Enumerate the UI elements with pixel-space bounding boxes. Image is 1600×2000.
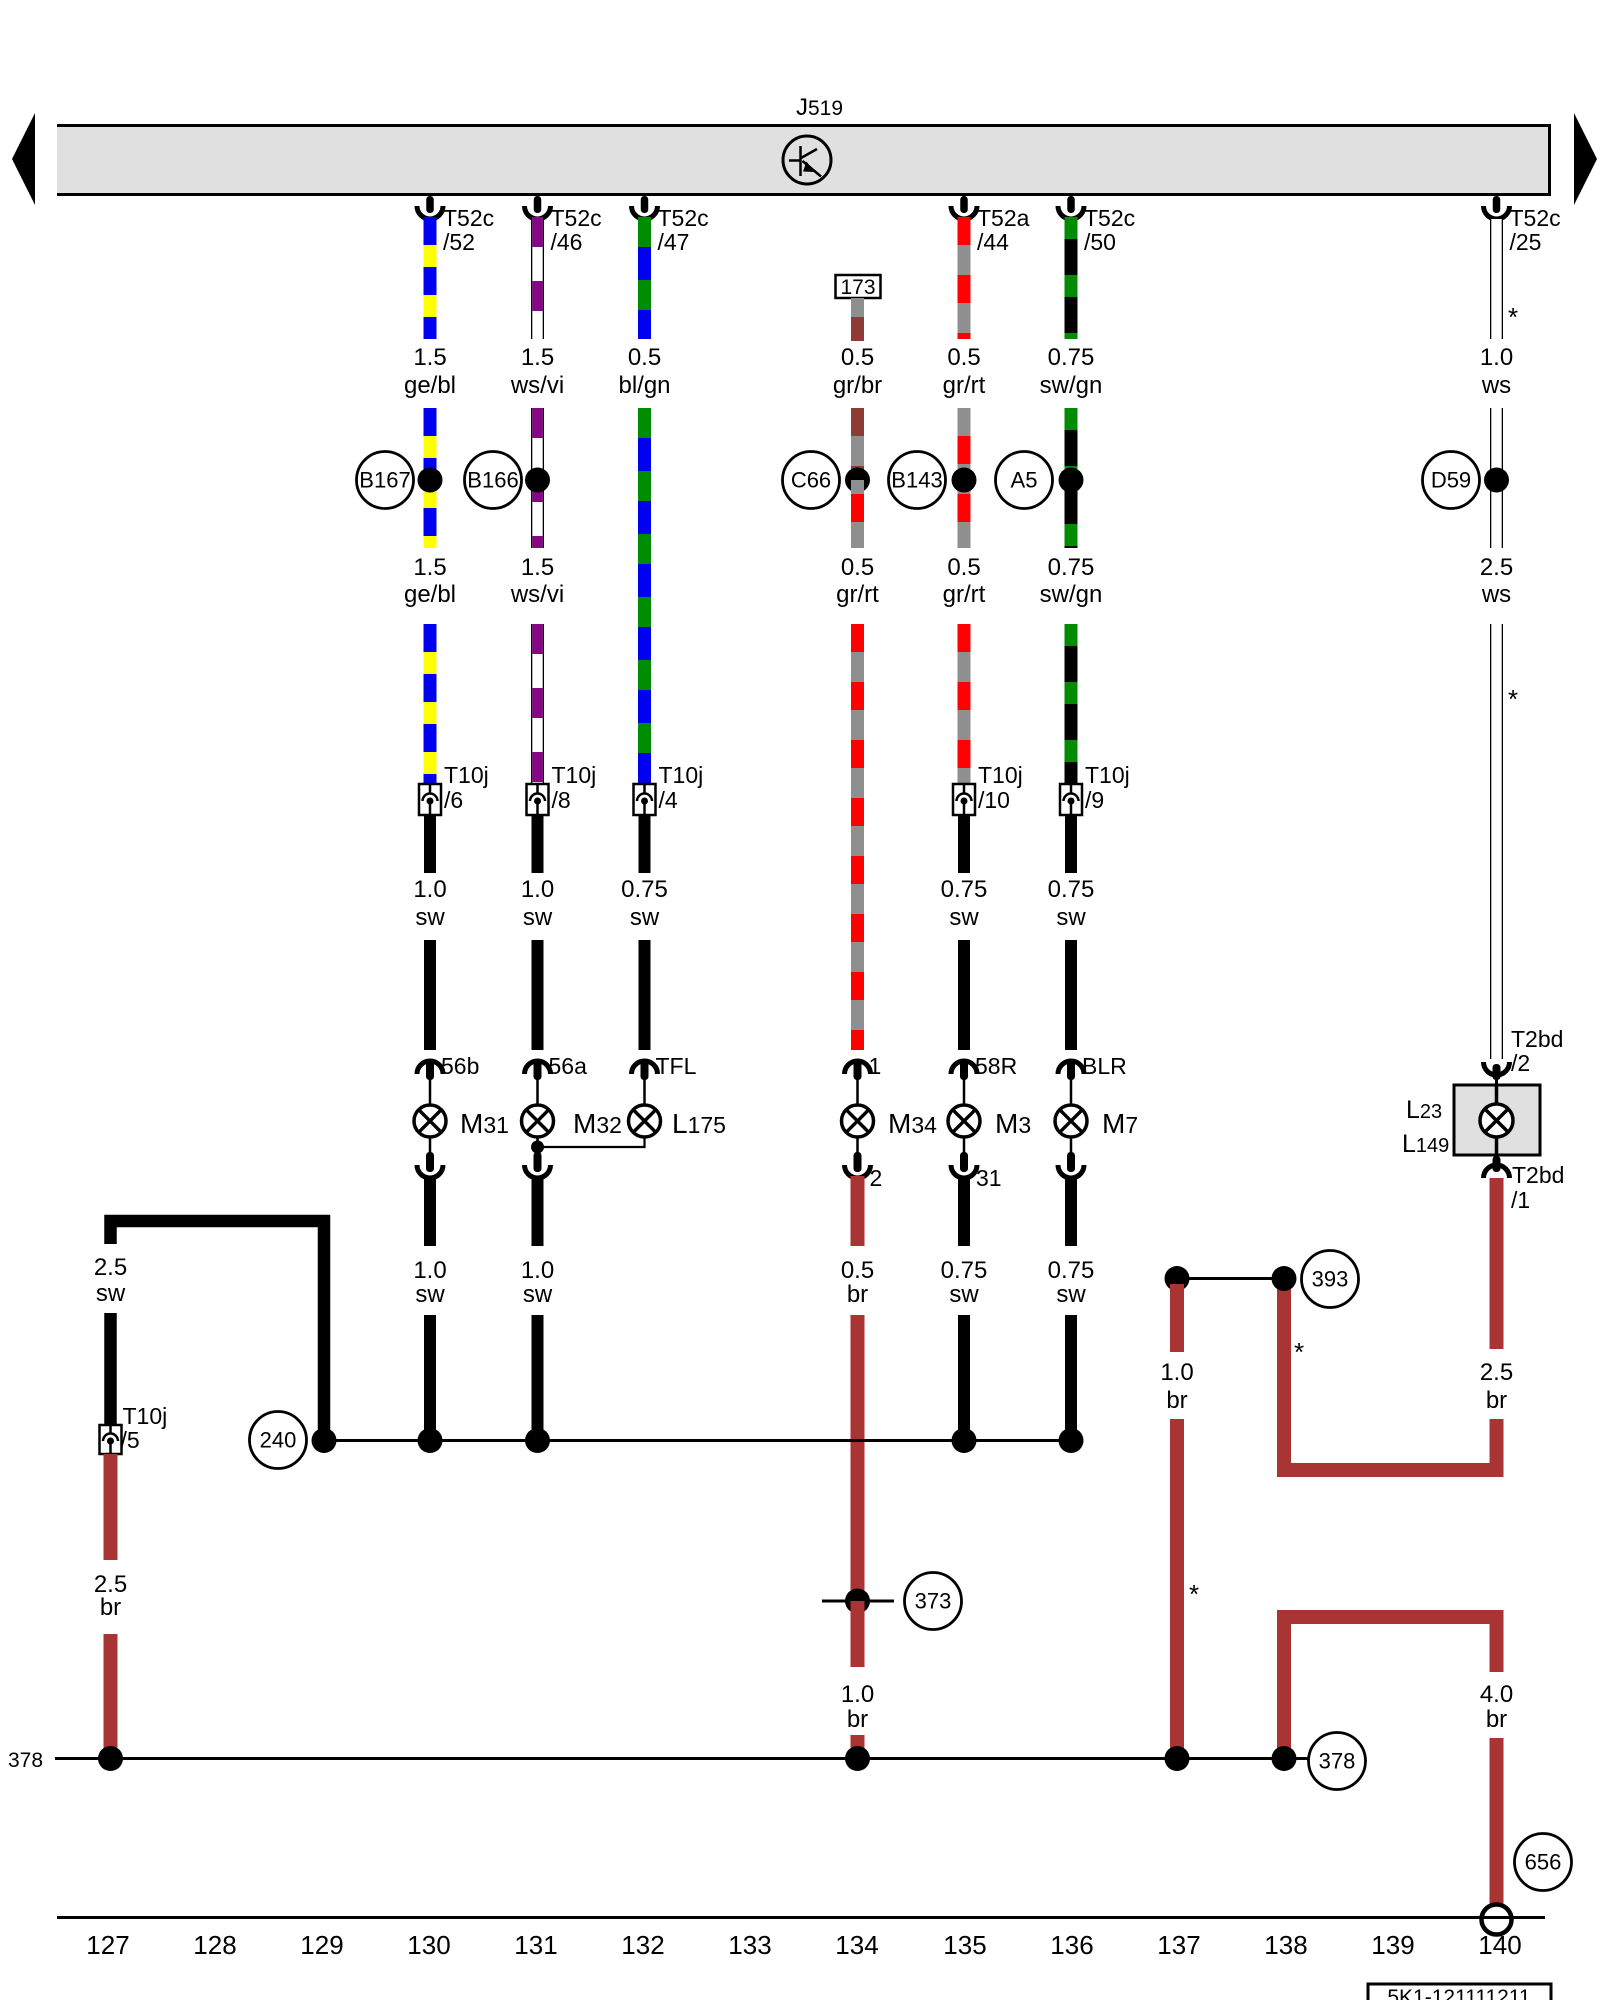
svg-text:L23: L23 [1406, 1096, 1442, 1124]
svg-text:ws/vi: ws/vi [510, 581, 564, 608]
svg-text:D59: D59 [1431, 468, 1471, 493]
label 1.0 sw below M32 [521, 1257, 554, 1308]
svg-text:0.75: 0.75 [1048, 554, 1095, 581]
svg-text:2: 2 [870, 1165, 883, 1191]
svg-text:1.0: 1.0 [841, 1681, 874, 1708]
connector T10j/5 [100, 1403, 168, 1454]
svg-text:sw/gn: sw/gn [1040, 581, 1103, 608]
svg-text:0.5: 0.5 [947, 344, 980, 371]
terminal ring 656 [1482, 1905, 1512, 1935]
continuation arrow right [1574, 113, 1597, 205]
svg-text:131: 131 [514, 1930, 557, 1960]
svg-text:/1: /1 [1511, 1187, 1530, 1213]
svg-text:138: 138 [1264, 1930, 1307, 1960]
svg-text:T2bd: T2bd [1511, 1026, 1563, 1052]
connector T2bd/1 [1484, 1155, 1565, 1213]
node 373 [905, 1573, 962, 1630]
label 0.75 sw (X5) [941, 876, 988, 931]
svg-text:ge/bl: ge/bl [404, 372, 456, 399]
wire ws segment 3 (long) [1490, 624, 1503, 1059]
svg-text:sw: sw [523, 1281, 553, 1308]
continuation arrow left [12, 113, 35, 205]
junction dot below M32 [531, 1137, 544, 1154]
wire ge/bl segment 1 [424, 217, 437, 339]
node B166 [465, 452, 522, 509]
label 0.75 sw below M3 [941, 1257, 988, 1308]
svg-text:133: 133 [728, 1930, 771, 1960]
label 0.5 gr/rt (X4) [836, 554, 879, 608]
svg-text:1: 1 [869, 1053, 882, 1079]
label 1.5 ge/bl (lower) [404, 554, 456, 608]
wire gr/rt segment 2b [851, 480, 864, 548]
label 1.5 ws/vi (upper) [510, 344, 564, 399]
junction dot X8 on 378 line [1272, 1746, 1297, 1771]
svg-text:0.5: 0.5 [841, 554, 874, 581]
svg-text:1.5: 1.5 [521, 554, 554, 581]
wire ge/bl segment 3 [424, 624, 437, 784]
svg-text:T52c: T52c [1510, 205, 1561, 231]
wire sw to ground node 240 (X5) [958, 1315, 970, 1441]
svg-text:BLR: BLR [1082, 1053, 1127, 1079]
wire sw to ground node 240 (X2) [532, 1315, 544, 1441]
label 0.5 gr/rt lower (X5) [943, 554, 986, 608]
svg-text:0.75: 0.75 [941, 1257, 988, 1284]
svg-text:gr/rt: gr/rt [836, 581, 879, 608]
junction dot X2 on 240 line [525, 1428, 550, 1453]
internal-connection symbol in J519 [783, 136, 831, 184]
svg-text:br: br [1486, 1387, 1507, 1414]
wire gr/rt segment 2 (X5) [958, 408, 971, 548]
label 4.0 br [1480, 1681, 1513, 1733]
svg-text:gr/br: gr/br [833, 372, 882, 399]
svg-text:/5: /5 [121, 1427, 140, 1453]
lamp unit L23 L149 box [1454, 1085, 1540, 1155]
wire ws/vi segment 2 [531, 408, 544, 548]
label 0.75 sw/gn (upper) [1040, 344, 1103, 399]
svg-text:br: br [847, 1281, 868, 1308]
label 1.5 ws/vi (lower) [510, 554, 564, 608]
junction dot X6 on 240 line [1059, 1428, 1084, 1453]
svg-text:1.0: 1.0 [521, 1257, 554, 1284]
svg-text:T10j: T10j [659, 762, 704, 788]
svg-text:0.75: 0.75 [621, 876, 668, 903]
label 0.75 sw below M7 [1048, 1257, 1095, 1308]
connector below M32 [525, 1137, 551, 1178]
label 0.5 br [841, 1257, 874, 1308]
svg-text:58R: 58R [975, 1053, 1017, 1079]
svg-text:C66: C66 [791, 468, 831, 493]
svg-text:0.75: 0.75 [1048, 344, 1095, 371]
wire br below 373 [851, 1601, 865, 1667]
svg-text:373: 373 [915, 1589, 952, 1614]
ground bus line 378 [55, 1757, 1309, 1760]
svg-text:B167: B167 [359, 468, 410, 493]
svg-text:J519: J519 [796, 94, 843, 121]
svg-text:T52c: T52c [1084, 205, 1135, 231]
svg-text:*: * [1508, 684, 1518, 714]
svg-text:/50: /50 [1084, 229, 1116, 255]
svg-text:T52c: T52c [443, 205, 494, 231]
svg-text:sw: sw [949, 904, 979, 931]
svg-text:130: 130 [407, 1930, 450, 1960]
ground node 373 tick [822, 1600, 894, 1603]
svg-text:sw: sw [415, 904, 445, 931]
connector T10j/6 [419, 762, 489, 815]
wire link 393 dots [1177, 1277, 1284, 1280]
node D59 [1423, 452, 1480, 509]
connector T10j/4 [634, 762, 704, 815]
connector pin 56a at M32 [525, 1053, 588, 1105]
svg-text:M3: M3 [995, 1108, 1031, 1139]
svg-text:*: * [1508, 302, 1518, 332]
svg-text:127: 127 [86, 1930, 129, 1960]
node 656 [1515, 1834, 1572, 1891]
svg-text:240: 240 [260, 1428, 297, 1453]
junction dot on ge/bl at B167 [418, 468, 443, 493]
connector pin TFL at L175 [632, 1053, 697, 1105]
svg-text:1.0: 1.0 [413, 876, 446, 903]
svg-text:T52c: T52c [551, 205, 602, 231]
svg-text:B143: B143 [891, 468, 942, 493]
lead in L23 box [1495, 1085, 1499, 1155]
wire br 2.5 to elbow [1490, 1419, 1504, 1463]
wire ws/vi segment 1 [531, 217, 544, 339]
svg-text:56b: 56b [441, 1053, 479, 1079]
svg-text:/6: /6 [444, 787, 463, 813]
svg-text:TFL: TFL [656, 1053, 697, 1079]
node C66 [783, 452, 840, 509]
wire br 4.0 to terminal 656 [1490, 1738, 1504, 1908]
wire br 1.0 to 378 line [1170, 1419, 1184, 1758]
svg-text:129: 129 [300, 1930, 343, 1960]
label 0.5 gr/br [833, 344, 882, 399]
connector below M31 [417, 1137, 443, 1178]
wire sw 0.75 below T10j/9 [1065, 815, 1077, 873]
wire br stub to 378 line [851, 1735, 865, 1758]
svg-text:2.5: 2.5 [1480, 554, 1513, 581]
connector pin 56b at M31 [417, 1053, 479, 1105]
junction dot at B143 [952, 468, 977, 493]
svg-text:1.0: 1.0 [413, 1257, 446, 1284]
wire sw 2.5 to T10j/5 [104, 1313, 117, 1425]
node 378 [1309, 1733, 1366, 1790]
svg-text:sw: sw [630, 904, 660, 931]
label 1.0 br (X7) [1160, 1359, 1193, 1414]
svg-text:0.5: 0.5 [841, 344, 874, 371]
svg-text:1.0: 1.0 [1480, 344, 1513, 371]
connector T10j/8 [527, 762, 597, 815]
bulb M32 [522, 1105, 554, 1137]
svg-text:sw: sw [523, 904, 553, 931]
label 0.75 sw (X3) [621, 876, 668, 931]
svg-text:/2: /2 [1511, 1050, 1530, 1076]
wire br 1.0 below 393 [1170, 1284, 1184, 1352]
label 2.5 br (X9) [1480, 1359, 1513, 1414]
connector pin 1 at M34 [845, 1053, 882, 1105]
node 393 [1302, 1251, 1359, 1308]
wire sw to lamp M3 [958, 940, 970, 1050]
svg-text:A5: A5 [1011, 468, 1038, 493]
connector T52c/50 at J519 [1058, 196, 1135, 255]
svg-text:bl/gn: bl/gn [618, 372, 670, 399]
connector T52c/47 at J519 [632, 196, 709, 255]
wire gr/rt segment 1 (X5) [958, 217, 971, 339]
svg-text:br: br [1486, 1706, 1507, 1733]
bulb M7 [1055, 1105, 1087, 1137]
bulb M31 [414, 1105, 446, 1137]
bulb L23/L149 [1480, 1104, 1513, 1137]
wire sw to lamp M32 [532, 940, 544, 1050]
svg-text:/52: /52 [443, 229, 475, 255]
label 2.5 ws [1480, 554, 1513, 608]
wire link M32 to L175 [538, 1136, 645, 1147]
node 240 [250, 1412, 307, 1469]
svg-text:br: br [1166, 1387, 1187, 1414]
svg-text:ws/vi: ws/vi [510, 372, 564, 399]
svg-text:*: * [1294, 1337, 1304, 1367]
wire br 2.5 below L23 [1490, 1178, 1504, 1349]
wire sw 2.5 elbow [111, 1221, 325, 1441]
svg-text:1.5: 1.5 [413, 554, 446, 581]
svg-text:173: 173 [840, 276, 875, 299]
svg-text:31: 31 [976, 1165, 1002, 1191]
wire sw 1.0 below T10j/8 [532, 815, 544, 873]
junction dot at D59 [1484, 468, 1509, 493]
junction dot 373 [845, 1589, 870, 1614]
bulb M34 [842, 1105, 874, 1137]
svg-text:ws: ws [1481, 581, 1511, 608]
wire sw 0.75 below T10j/10 [958, 815, 970, 873]
junction dot 393 right [1272, 1266, 1297, 1291]
wire ws segment 1 [1490, 219, 1503, 339]
connector pin BLR at M7 [1058, 1053, 1127, 1105]
junction dot X1 on 240 line [418, 1428, 443, 1453]
svg-text:128: 128 [193, 1930, 236, 1960]
wire sw/gn segment 3 [1065, 624, 1078, 784]
svg-text:L149: L149 [1402, 1130, 1449, 1158]
junction dot at A5 [1059, 468, 1084, 493]
bulb L175 [629, 1105, 661, 1137]
node reference 173 [836, 275, 881, 299]
wire sw to lamp L175 [639, 940, 651, 1050]
svg-text:2.5: 2.5 [94, 1254, 127, 1281]
svg-text:132: 132 [621, 1930, 664, 1960]
svg-text:M7: M7 [1102, 1108, 1138, 1139]
wire sw 1.0 below T10j/6 [424, 815, 436, 873]
label 1.0 sw (X1) [413, 876, 446, 931]
svg-text:378: 378 [8, 1749, 43, 1772]
svg-text:656: 656 [1525, 1850, 1562, 1875]
wire sw to ground node 240 (X6) [1065, 1315, 1077, 1441]
svg-text:sw: sw [949, 1281, 979, 1308]
junction dot elbow on 240 line [312, 1428, 337, 1453]
wire bl/gn segment 1 [638, 217, 651, 339]
svg-text:T10j: T10j [552, 762, 597, 788]
svg-text:/9: /9 [1085, 787, 1104, 813]
wire br to node 373 [851, 1315, 865, 1601]
label 1.0 br (X4) [841, 1681, 874, 1733]
wire sw to ground node 240 [424, 1315, 436, 1441]
svg-text:T2bd: T2bd [1512, 1162, 1564, 1188]
wire gr/rt long segment [851, 624, 864, 1050]
svg-text:139: 139 [1371, 1930, 1414, 1960]
junction dot 393 left [1165, 1266, 1190, 1291]
label 1.0 ws [1480, 344, 1513, 399]
svg-text:M34: M34 [888, 1108, 937, 1139]
label 2.5 sw [94, 1254, 127, 1307]
connector T2bd/2 [1484, 1026, 1564, 1086]
label 0.75 sw/gn (lower) [1040, 554, 1103, 608]
svg-text:0.5: 0.5 [947, 554, 980, 581]
junction dot on ws/vi at B166 [525, 468, 550, 493]
svg-text:/8: /8 [552, 787, 571, 813]
svg-text:/25: /25 [1510, 229, 1542, 255]
svg-text:137: 137 [1157, 1930, 1200, 1960]
svg-text:0.75: 0.75 [941, 876, 988, 903]
connector below M7 [1058, 1137, 1084, 1178]
bulb M3 [948, 1105, 980, 1137]
connector T52a/44 at J519 [951, 196, 1030, 255]
svg-text:136: 136 [1050, 1930, 1093, 1960]
wire ws/vi segment 3 [531, 624, 544, 784]
svg-text:T52a: T52a [977, 205, 1030, 231]
svg-text:5K1-121111211: 5K1-121111211 [1387, 1986, 1530, 2000]
svg-text:gr/rt: gr/rt [943, 372, 986, 399]
svg-text:140: 140 [1478, 1930, 1521, 1960]
wire gr/rt segment 3 (X5) [958, 624, 971, 784]
wire sw/gn segment 2 [1065, 408, 1078, 548]
svg-text:/47: /47 [658, 229, 690, 255]
wire gr/br segment 2a [851, 408, 864, 480]
wire br elbow horizontal (to 393 branch) [1284, 1284, 1497, 1470]
svg-text:sw/gn: sw/gn [1040, 372, 1103, 399]
wire sw/gn segment 1 [1065, 217, 1078, 339]
svg-text:1.0: 1.0 [521, 876, 554, 903]
svg-text:L175: L175 [672, 1108, 726, 1139]
wire sw below M3 [958, 1176, 970, 1246]
connector T10j/9 [1060, 762, 1130, 815]
connector pin 31 below M3 [951, 1137, 1002, 1191]
label 0.5 gr/rt upper (X5) [943, 344, 986, 399]
wire br 0.5 below M34 [851, 1176, 865, 1246]
wire sw to lamp M7 [1065, 940, 1077, 1050]
svg-text:1.5: 1.5 [413, 344, 446, 371]
svg-text:0.75: 0.75 [1048, 876, 1095, 903]
junction dot on gr wire at C66 [845, 468, 870, 493]
svg-text:1.5: 1.5 [521, 344, 554, 371]
svg-text:sw: sw [96, 1280, 126, 1307]
diagram number box [1368, 1984, 1551, 2000]
wire sw below M32 [532, 1176, 544, 1246]
label 1.0 sw below M31 [413, 1257, 446, 1308]
node B143 [889, 452, 946, 509]
wire bl/gn segment 2 (long) [638, 408, 651, 784]
node A5 [996, 452, 1053, 509]
wire sw below M31 [424, 1176, 436, 1246]
svg-text:/44: /44 [977, 229, 1009, 255]
junction dot XL on 378 line [98, 1746, 123, 1771]
svg-text:4.0: 4.0 [1480, 1681, 1513, 1708]
svg-text:T52c: T52c [658, 205, 709, 231]
connector pin 2 below M34 [845, 1137, 883, 1191]
wire br 2.5 below T10j/5 [104, 1454, 118, 1560]
svg-text:M32: M32 [573, 1108, 622, 1139]
wire ws segment 2 [1490, 408, 1503, 548]
svg-text:0.75: 0.75 [1048, 1257, 1095, 1284]
label 0.75 sw (X6) [1048, 876, 1095, 931]
svg-text:134: 134 [835, 1930, 878, 1960]
wire br 2.5 to 378 line [104, 1634, 118, 1758]
svg-text:sw: sw [1056, 904, 1086, 931]
svg-text:br: br [100, 1594, 121, 1621]
wire gr/br stub below 173 [851, 298, 864, 341]
connector T10j/10 [953, 762, 1023, 815]
svg-text:sw: sw [415, 1281, 445, 1308]
svg-text:393: 393 [1312, 1267, 1349, 1292]
connector T52c/25 at J519 [1484, 196, 1561, 255]
svg-text:*: * [1189, 1579, 1199, 1609]
wire sw 0.75 below T10j/4 [639, 815, 651, 873]
bottom coordinate line [57, 1916, 1545, 1919]
svg-text:ws: ws [1481, 372, 1511, 399]
svg-text:0.5: 0.5 [841, 1257, 874, 1284]
svg-text:1.0: 1.0 [1160, 1359, 1193, 1386]
svg-text:T10j: T10j [1085, 762, 1130, 788]
svg-text:gr/rt: gr/rt [943, 581, 986, 608]
svg-text:/4: /4 [659, 787, 678, 813]
svg-text:T10j: T10j [444, 762, 489, 788]
svg-text:ge/bl: ge/bl [404, 581, 456, 608]
label 0.5 bl/gn [618, 344, 670, 399]
svg-text:sw: sw [1056, 1281, 1086, 1308]
svg-text:56a: 56a [549, 1053, 588, 1079]
ground bus line 240 [325, 1439, 1071, 1442]
label 2.5 br (XL) [94, 1571, 127, 1621]
connector pin 58R at M3 [951, 1053, 1017, 1105]
svg-text:/46: /46 [551, 229, 583, 255]
svg-text:378: 378 [1319, 1749, 1356, 1774]
wire sw below M7 [1065, 1176, 1077, 1246]
svg-text:135: 135 [943, 1930, 986, 1960]
svg-text:0.5: 0.5 [628, 344, 661, 371]
svg-text:br: br [847, 1706, 868, 1733]
connector T52c/46 at J519 [525, 196, 602, 255]
svg-text:/10: /10 [978, 787, 1010, 813]
label 1.5 ge/bl (upper) [404, 344, 456, 399]
junction dot X5 on 240 line [952, 1428, 977, 1453]
svg-text:B166: B166 [467, 468, 518, 493]
wire sw to lamp M31 [424, 940, 436, 1050]
bus bar J519 (BCM) [57, 124, 1551, 196]
junction dot X4 on 378 line [845, 1746, 870, 1771]
wire br elbow (378 to 656 branch) [1284, 1617, 1497, 1758]
node B167 [357, 452, 414, 509]
label 1.0 sw (X2) [521, 876, 554, 931]
junction dot X7 on 378 line [1165, 1746, 1190, 1771]
svg-text:M31: M31 [460, 1108, 509, 1139]
svg-text:T10j: T10j [123, 1403, 168, 1429]
svg-text:2.5: 2.5 [1480, 1359, 1513, 1386]
svg-text:T10j: T10j [978, 762, 1023, 788]
coordinate numbers 127-140 [86, 1930, 1521, 1960]
connector T52c/52 at J519 [417, 196, 494, 255]
wire ge/bl segment 2 [424, 408, 437, 548]
